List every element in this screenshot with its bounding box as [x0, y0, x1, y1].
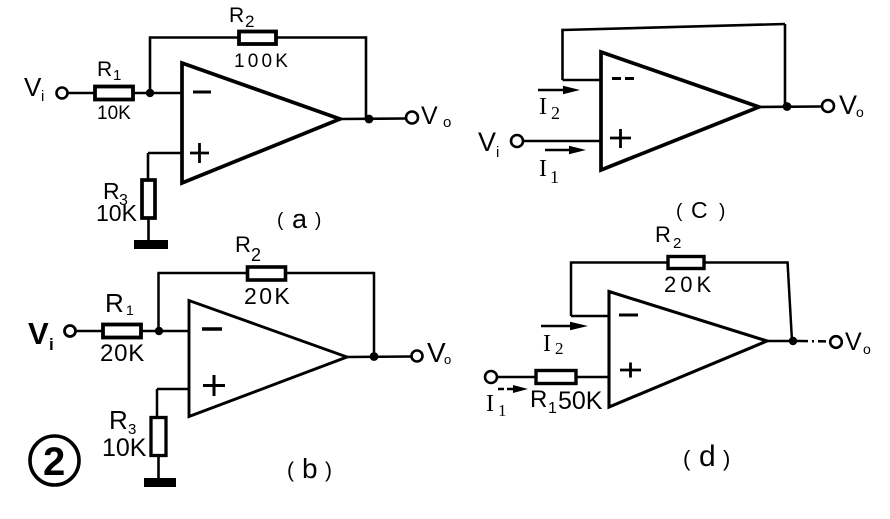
wire feedback left vertical (d)	[570, 261, 573, 316]
wire to non-inverting input (a)	[148, 152, 182, 155]
label R2 (a)	[229, 4, 254, 31]
label R1 (b)	[105, 288, 134, 318]
svg-text:): )	[325, 459, 332, 482]
wire feedback right vertical (c)	[784, 24, 787, 107]
wire feedback right vertical (d)	[788, 261, 793, 341]
svg-text:(: (	[287, 459, 294, 482]
wire Vi terminal to R1 (a)	[68, 92, 96, 95]
svg-text:1: 1	[498, 401, 507, 420]
label (a)	[277, 204, 321, 234]
svg-text:I: I	[539, 94, 547, 120]
svg-text:o: o	[443, 114, 451, 131]
terminal Vi (b)	[65, 326, 76, 337]
svg-text:R: R	[235, 232, 251, 257]
svg-text:10K: 10K	[102, 434, 147, 462]
wire feedback left segment (d)	[571, 261, 668, 264]
wire node up to feedback (a)	[149, 38, 152, 94]
resistor R2 (b)	[248, 267, 286, 280]
wire R3 to ground (b)	[157, 456, 160, 480]
svg-text:): )	[723, 446, 730, 471]
svg-text:1: 1	[126, 302, 134, 318]
label I2 (d)	[543, 331, 564, 358]
wire to non-inverting input (b)	[157, 388, 189, 391]
svg-text:R: R	[530, 386, 547, 413]
wire R1 to non-inverting input (d)	[576, 376, 609, 379]
svg-text:R: R	[655, 222, 671, 247]
svg-text:R: R	[229, 4, 244, 27]
svg-text:20K: 20K	[100, 340, 145, 367]
svg-text:V: V	[478, 127, 496, 157]
svg-text:V: V	[24, 72, 42, 102]
wire R1 to inverting input (b)	[140, 330, 189, 333]
svg-text:10K: 10K	[96, 200, 138, 226]
wire terminal to R1 (d)	[497, 376, 536, 379]
svg-text:R: R	[97, 58, 112, 81]
label I1 (c)	[539, 156, 559, 187]
wire feedback down to output (b)	[373, 272, 376, 357]
terminal Vo (c)	[822, 100, 834, 112]
wire down to R3 (a)	[147, 153, 150, 180]
wire feedback left segment (a)	[149, 36, 239, 39]
wire down to R3 (b)	[156, 389, 159, 419]
current arrow I2 (d)	[541, 322, 588, 331]
inverting input marker (a)	[193, 91, 211, 94]
label I1 (d)	[486, 391, 507, 420]
svg-text:o: o	[863, 341, 871, 357]
svg-text:I: I	[486, 391, 494, 417]
svg-text:1: 1	[548, 400, 557, 417]
terminal Vo (a)	[406, 112, 418, 124]
inverting input marker (d)	[619, 314, 638, 317]
terminal input (d)	[485, 371, 497, 383]
wire Vi to non-inverting input (c)	[523, 140, 601, 143]
wire Vi terminal to R1 (b)	[76, 330, 103, 333]
wire output (b)	[347, 355, 412, 358]
wire node up to feedback (b)	[157, 273, 160, 331]
label R1 (a)	[97, 58, 121, 84]
figure number circled 2	[30, 436, 79, 485]
label Vi (a)	[24, 72, 44, 105]
svg-text:50K: 50K	[558, 387, 603, 415]
wire feedback right segment (a)	[276, 36, 366, 39]
op-amp A1 (a)	[182, 63, 340, 183]
label (b)	[287, 453, 332, 484]
svg-text:i: i	[49, 335, 54, 354]
wire into inverting input (c)	[563, 79, 602, 82]
svg-text:2: 2	[251, 245, 261, 265]
wire feedback right segment (b)	[286, 272, 374, 275]
wire feedback left segment (b)	[157, 272, 247, 275]
svg-text:V: V	[845, 328, 862, 356]
label Vo (b)	[427, 337, 451, 368]
svg-text:): )	[315, 210, 321, 231]
svg-text:(: (	[676, 201, 683, 222]
resistor R1 (a)	[95, 87, 133, 100]
node inverting junction (a)	[146, 89, 154, 97]
resistor R1 (b)	[103, 325, 141, 338]
svg-text:(: (	[277, 210, 284, 231]
ground (a)	[134, 240, 168, 249]
resistor R3 (b)	[151, 418, 166, 456]
svg-text:d: d	[699, 440, 716, 473]
wire output (c)	[759, 105, 821, 108]
svg-text:R: R	[105, 288, 124, 318]
node output (d)	[789, 337, 797, 345]
wire output dash-dot to terminal (d)	[800, 340, 830, 343]
svg-text:2: 2	[551, 103, 560, 123]
svg-text:1: 1	[113, 67, 121, 84]
svg-text:100K: 100K	[234, 51, 291, 72]
svg-text:20K: 20K	[244, 283, 292, 309]
label Vo (d)	[845, 328, 871, 357]
svg-text:2: 2	[555, 339, 564, 358]
label (c)	[676, 197, 725, 223]
wire R1 to inverting input (a)	[133, 92, 182, 95]
label R3 (a)	[103, 178, 128, 209]
svg-text:10K: 10K	[97, 103, 131, 124]
resistor R1 (d)	[536, 371, 576, 384]
label Vo (c)	[839, 90, 864, 120]
non-inverting input marker (c)	[610, 129, 631, 148]
svg-text:2: 2	[673, 235, 681, 252]
node output (a)	[365, 115, 374, 124]
svg-text:1: 1	[550, 167, 559, 187]
wire into inverting input (d)	[571, 315, 609, 318]
node inverting junction (b)	[155, 327, 163, 335]
svg-text:I: I	[539, 156, 547, 182]
op-amp A2 (b)	[189, 301, 347, 417]
terminal Vo (b)	[412, 351, 423, 362]
wire output (a)	[340, 117, 406, 120]
svg-text:V: V	[839, 90, 857, 120]
non-inverting input marker (a)	[190, 143, 209, 163]
svg-text:V: V	[28, 316, 49, 351]
svg-text:b: b	[302, 453, 318, 484]
label Vi (c)	[478, 127, 499, 161]
non-inverting input marker (d)	[620, 363, 641, 378]
wire output (d)	[767, 340, 800, 343]
resistor R3 (a)	[142, 180, 155, 218]
node output (c)	[783, 102, 792, 111]
node output (b)	[370, 352, 379, 361]
terminal Vo (d)	[830, 336, 842, 348]
svg-text:C: C	[691, 197, 708, 223]
label R2 (b)	[235, 232, 261, 265]
svg-text:I: I	[543, 331, 551, 357]
wire feedback right segment (d)	[704, 261, 789, 264]
inverting input marker (c)	[612, 77, 634, 80]
non-inverting input marker (b)	[203, 375, 225, 396]
svg-text:V: V	[421, 102, 438, 130]
svg-text:i: i	[41, 88, 44, 105]
wire feedback left vertical (c)	[561, 29, 564, 80]
op-amp A4 (d)	[609, 292, 767, 408]
svg-text:2: 2	[43, 440, 65, 484]
label (d)	[683, 440, 730, 473]
svg-text:i: i	[496, 144, 499, 161]
ground (b)	[144, 478, 176, 487]
terminal Vi (c)	[511, 135, 523, 147]
current arrow I2 (c)	[538, 86, 580, 95]
current arrow I1 dashed (d)	[498, 385, 528, 393]
label Vo (a)	[421, 102, 451, 131]
label R3 (b)	[109, 405, 136, 438]
inverting input marker (b)	[202, 327, 222, 330]
label I2 (c)	[539, 94, 560, 123]
op-amp A3 (c)	[601, 52, 759, 170]
current arrow I1 (c)	[545, 146, 586, 155]
svg-text:o: o	[444, 352, 451, 367]
wire feedback top (c)	[563, 24, 786, 30]
svg-text:2: 2	[245, 12, 254, 31]
wire feedback down to output (a)	[365, 36, 368, 119]
svg-text:o: o	[856, 104, 864, 120]
svg-text:a: a	[292, 204, 308, 234]
svg-text:20K: 20K	[664, 272, 715, 297]
resistor R2 (a)	[239, 32, 276, 45]
terminal Vi (a)	[57, 88, 68, 99]
label R2 (d)	[655, 222, 681, 252]
wire R3 to ground (a)	[147, 218, 150, 241]
svg-text:(: (	[683, 446, 691, 471]
resistor R2 (d)	[668, 257, 704, 269]
svg-text:): )	[719, 201, 725, 222]
label Vi (b)	[28, 316, 54, 354]
label R1 50K (d)	[530, 386, 603, 417]
svg-text:R: R	[109, 405, 128, 435]
